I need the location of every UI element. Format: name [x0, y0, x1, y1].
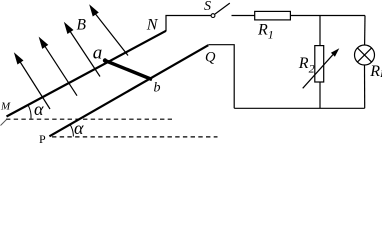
svg-text:Q: Q: [205, 49, 216, 65]
svg-text:S: S: [204, 0, 211, 14]
svg-text:α: α: [34, 99, 44, 119]
svg-text:P: P: [39, 132, 46, 143]
svg-text:α: α: [74, 118, 84, 138]
svg-text:b: b: [154, 81, 161, 96]
svg-text:M: M: [0, 100, 11, 112]
svg-text:N: N: [146, 16, 159, 33]
svg-text:a: a: [93, 43, 103, 64]
svg-text:B: B: [77, 17, 87, 34]
